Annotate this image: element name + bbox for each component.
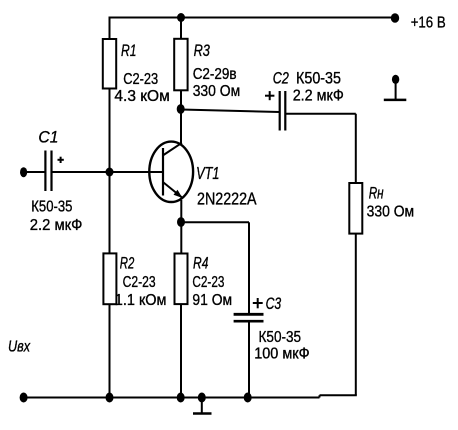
svg-text:С2-23: С2-23 xyxy=(123,71,158,88)
svg-text:С2-23: С2-23 xyxy=(192,274,224,291)
svg-text:VT1: VT1 xyxy=(196,163,219,183)
svg-text:1.1 кОм: 1.1 кОм xyxy=(115,292,167,309)
svg-text:К50-35: К50-35 xyxy=(259,329,302,346)
svg-text:С2-29в: С2-29в xyxy=(193,66,237,83)
svg-text:4.3 кОм: 4.3 кОм xyxy=(114,88,169,105)
svg-text:330 Ом: 330 Ом xyxy=(193,83,241,100)
svg-text:С3: С3 xyxy=(266,294,282,313)
svg-text:R3: R3 xyxy=(194,41,211,60)
svg-text:2N2222A: 2N2222A xyxy=(197,188,257,208)
svg-text:2.2 мкФ: 2.2 мкФ xyxy=(30,217,83,234)
svg-text:К50-35: К50-35 xyxy=(31,199,72,216)
svg-text:R4: R4 xyxy=(193,253,208,272)
svg-text:+16 В: +16 В xyxy=(411,15,446,32)
svg-text:R1: R1 xyxy=(121,41,137,60)
svg-text:91 Ом: 91 Ом xyxy=(192,292,232,309)
svg-text:100 мкФ: 100 мкФ xyxy=(254,346,309,363)
svg-text:330 Ом: 330 Ом xyxy=(367,204,415,221)
svg-text:К50-35: К50-35 xyxy=(296,70,341,88)
svg-text:С2-23: С2-23 xyxy=(123,274,156,291)
svg-text:Rн: Rн xyxy=(369,185,384,203)
svg-text:2.2 мкФ: 2.2 мкФ xyxy=(293,88,344,105)
svg-text:R2: R2 xyxy=(120,253,135,272)
svg-text:С1: С1 xyxy=(38,128,58,147)
svg-text:С2: С2 xyxy=(273,69,289,88)
svg-text:Uвх: Uвх xyxy=(8,339,31,356)
